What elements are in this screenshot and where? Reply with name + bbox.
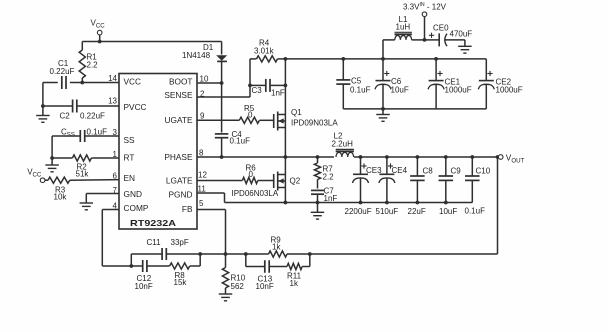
label C8 — [423, 167, 434, 176]
ground pin7 — [80, 203, 94, 210]
svg-text:GND: GND — [124, 189, 142, 199]
wire R4 left vertical — [249, 59, 251, 86]
label pin SENSE — [164, 90, 193, 100]
capacitor C6 — [375, 59, 391, 109]
wire VCC top rail — [82, 41, 221, 43]
wire input bottom rail — [343, 108, 486, 110]
wire SS to RT vertical — [51, 136, 53, 158]
wire FB node — [200, 253, 246, 255]
svg-text:0.1uF: 0.1uF — [230, 137, 251, 146]
capacitor C12 — [131, 260, 147, 272]
junction C5 top — [341, 57, 345, 61]
label C6 — [391, 77, 409, 95]
svg-text:10nF: 10nF — [135, 282, 153, 291]
svg-text:IPD09N03LA: IPD09N03LA — [291, 119, 338, 128]
junction C6 top — [381, 57, 385, 61]
ground C7 — [311, 203, 325, 220]
pin number 11 — [198, 184, 207, 193]
label Q1 — [291, 108, 338, 128]
svg-text:Q1: Q1 — [291, 108, 302, 117]
pin number 3 — [113, 128, 118, 137]
svg-text:0.22uF: 0.22uF — [80, 112, 105, 121]
terminal VCC — [97, 30, 102, 41]
label C1 — [50, 59, 75, 76]
capacitor C7 — [311, 190, 324, 202]
svg-text:1N4148: 1N4148 — [182, 51, 211, 60]
terminal VIN — [422, 12, 427, 40]
svg-text:SS: SS — [124, 135, 136, 145]
wire pin13 PVCC — [43, 105, 119, 107]
label R9 — [271, 236, 282, 252]
label R4 — [254, 39, 275, 56]
svg-text:0.1uF: 0.1uF — [350, 86, 371, 95]
svg-text:22uF: 22uF — [408, 207, 426, 216]
label C7 — [324, 187, 338, 204]
transistor Q2 — [274, 172, 286, 191]
wire C4 to PHASE — [221, 138, 223, 157]
node VCC label — [91, 19, 106, 30]
svg-text:C9: C9 — [451, 167, 462, 176]
svg-text:5: 5 — [199, 199, 204, 208]
junction C3 right — [284, 84, 288, 88]
wire pin7 GND — [86, 194, 119, 203]
junction C2 left — [41, 104, 45, 108]
capacitor C8 — [410, 157, 425, 203]
diode D1 — [216, 55, 227, 61]
resistor R8 — [147, 254, 200, 269]
junction VOUT tap — [496, 155, 500, 159]
wire PHASE — [197, 156, 334, 158]
capacitor CE0 — [425, 33, 465, 46]
svg-text:470uF: 470uF — [450, 30, 473, 39]
op-amp U1 RT9232A body — [119, 74, 197, 230]
wire comp branch join — [130, 254, 132, 266]
junction C9 bottom — [444, 201, 448, 205]
label pin GND — [124, 189, 142, 199]
junction comp mid — [198, 252, 202, 256]
junction CE4 bottom — [385, 201, 389, 205]
label pin SS — [124, 135, 136, 145]
label pin RT — [124, 153, 135, 163]
label pin EN — [124, 173, 136, 183]
label C3 — [252, 86, 285, 98]
svg-text:33pF: 33pF — [171, 238, 189, 247]
svg-text:0: 0 — [248, 110, 253, 119]
label pin PGND — [169, 190, 193, 200]
svg-text:2.2: 2.2 — [87, 61, 99, 70]
capacitor C5 — [336, 59, 350, 109]
svg-text:3.3VIN - 12V: 3.3VIN - 12V — [403, 2, 447, 12]
wire Q1 source — [284, 128, 286, 158]
junction C10 top — [470, 155, 474, 159]
pin number 8 — [199, 149, 204, 158]
resistor R2 — [52, 155, 119, 161]
label CSS — [61, 128, 107, 139]
label CE1 — [445, 78, 472, 95]
junction C8 top — [416, 155, 420, 159]
svg-text:FB: FB — [182, 204, 193, 214]
junction CE4 top — [385, 155, 389, 159]
capacitor C10 — [465, 157, 480, 203]
svg-text:14: 14 — [108, 74, 117, 83]
svg-text:11: 11 — [198, 184, 207, 193]
capacitor CE2 — [478, 59, 494, 109]
capacitor C9 — [439, 157, 454, 203]
wire Q2 source — [284, 188, 286, 203]
svg-text:1uH: 1uH — [396, 23, 411, 32]
svg-text:10k: 10k — [54, 193, 68, 202]
svg-text:7: 7 — [113, 186, 118, 195]
svg-text:12: 12 — [198, 171, 207, 180]
capacitor C3 — [250, 79, 285, 92]
label CE3 plus — [361, 163, 366, 168]
label CE2 plus — [487, 71, 492, 76]
svg-text:C2: C2 — [60, 112, 71, 121]
wire Q1 drain — [284, 59, 286, 115]
junction input gnd — [381, 107, 385, 111]
label CE4 — [392, 166, 408, 175]
resistor R11 — [269, 254, 310, 270]
resistor R1 — [79, 42, 85, 83]
capacitor C13 — [246, 254, 269, 273]
svg-text:15k: 15k — [174, 278, 188, 287]
svg-text:0.22uF: 0.22uF — [50, 67, 75, 76]
svg-text:SENSE: SENSE — [164, 90, 193, 100]
svg-text:C3: C3 — [252, 86, 263, 95]
label R5 — [244, 104, 255, 119]
label CE4 plus — [388, 163, 393, 168]
capacitor CSS — [80, 130, 84, 142]
svg-text:C8: C8 — [423, 167, 434, 176]
svg-text:CE0: CE0 — [433, 24, 449, 33]
label L2 — [332, 132, 354, 149]
junction R9 left — [244, 252, 248, 256]
ground RT net — [45, 158, 59, 172]
svg-text:0.1uF: 0.1uF — [87, 128, 108, 137]
junction C7 gnd — [316, 201, 320, 205]
wire pin11 PGND — [197, 193, 285, 203]
pin number 10 — [200, 75, 209, 84]
label C2 — [60, 112, 106, 121]
svg-text:3.01k: 3.01k — [254, 47, 275, 56]
node VCC2 label — [27, 168, 42, 179]
junction R4 right rail — [284, 57, 288, 61]
label R8 — [174, 271, 188, 287]
ground R10 — [219, 294, 233, 301]
pin number 12 — [198, 171, 207, 180]
pin number 13 — [108, 96, 117, 105]
inductor L1 — [383, 32, 425, 40]
ground CE0 — [458, 40, 472, 53]
svg-text:10: 10 — [200, 75, 209, 84]
svg-text:6: 6 — [113, 171, 118, 180]
capacitor CE3 — [353, 157, 369, 203]
label CE0 plus — [429, 33, 434, 38]
ground pin13 net — [36, 106, 50, 122]
svg-text:1000uF: 1000uF — [445, 86, 472, 95]
label D1 — [182, 43, 214, 60]
label R7 — [323, 165, 335, 182]
svg-text:0.1uF: 0.1uF — [465, 207, 486, 216]
label R11 — [287, 272, 302, 289]
capacitor C2 — [73, 100, 77, 113]
node VIN label — [403, 2, 447, 12]
resistor R7 — [314, 157, 320, 189]
pin number 14 — [108, 74, 117, 83]
wire ground rail — [285, 202, 472, 204]
label pin PVCC — [124, 102, 147, 112]
svg-text:2200uF: 2200uF — [345, 207, 372, 216]
svg-text:8: 8 — [199, 149, 204, 158]
junction R7 top — [316, 155, 320, 159]
svg-text:1nF: 1nF — [271, 89, 285, 98]
ground input bank — [376, 109, 390, 121]
label pin LGATE — [166, 176, 193, 186]
svg-text:PVCC: PVCC — [124, 102, 147, 112]
svg-text:51k: 51k — [76, 170, 90, 179]
wire FB to VOUT — [310, 157, 498, 254]
pin number 5 — [199, 199, 204, 208]
label L1 — [396, 15, 411, 32]
label CE2 — [496, 78, 523, 95]
label R2 — [76, 163, 90, 179]
label CE3 — [366, 166, 382, 175]
svg-text:1000uF: 1000uF — [496, 86, 523, 95]
capacitor CE1 — [428, 59, 444, 109]
label R10 — [231, 274, 246, 292]
transistor Q1 — [274, 112, 286, 131]
label C10 — [476, 167, 491, 176]
wire pin10 BOOT — [197, 82, 222, 84]
svg-text:13: 13 — [108, 96, 117, 105]
label pin FB — [182, 204, 193, 214]
wire input top rail — [285, 58, 486, 60]
svg-text:9: 9 — [200, 112, 205, 121]
svg-text:3: 3 — [113, 128, 118, 137]
terminal VOUT — [498, 155, 503, 160]
svg-text:PHASE: PHASE — [164, 152, 193, 162]
label pin UGATE — [165, 115, 193, 125]
label C9 — [451, 167, 462, 176]
junction RT — [50, 156, 54, 160]
inductor L2 — [336, 149, 354, 157]
resistor R5 — [197, 117, 274, 123]
svg-text:RT: RT — [124, 153, 135, 163]
label RT9232A — [130, 218, 176, 228]
svg-text:2.2uH: 2.2uH — [332, 139, 354, 148]
svg-text:LGATE: LGATE — [166, 176, 193, 186]
wire pin5 FB — [197, 210, 226, 255]
capacitor C11 — [131, 248, 200, 260]
junction Q2 gnd — [284, 201, 288, 205]
junction C8 bottom — [416, 201, 420, 205]
svg-text:1k: 1k — [290, 279, 299, 288]
resistor R9 — [246, 251, 310, 257]
svg-text:BOOT: BOOT — [169, 77, 193, 87]
svg-text:IPD06N03LA: IPD06N03LA — [232, 189, 279, 198]
label pin VCC — [124, 77, 142, 87]
svg-text:C5: C5 — [351, 77, 362, 86]
capacitor C4 — [215, 134, 229, 138]
wire L1 to rail — [382, 40, 384, 59]
junction C9 top — [444, 155, 448, 159]
junction BOOT — [220, 81, 224, 85]
wire C1 left vertical — [42, 83, 44, 107]
label CE1 plus — [437, 71, 442, 76]
pin number 1 — [113, 150, 118, 159]
svg-text:C11: C11 — [147, 238, 162, 247]
svg-text:562: 562 — [231, 282, 245, 291]
label R1 value — [87, 53, 99, 70]
label C12 — [135, 274, 153, 291]
junction R1 pin14 — [80, 81, 84, 85]
pin number 9 — [200, 112, 205, 121]
svg-text:C10: C10 — [476, 167, 491, 176]
junction C3 left — [248, 84, 252, 88]
label CE0 — [433, 24, 472, 39]
junction VCC rail — [98, 40, 102, 44]
junction CE3 top — [359, 155, 363, 159]
wire pin2 SENSE — [197, 85, 250, 97]
label pin COMP — [124, 203, 149, 213]
junction CE1 top — [434, 57, 438, 61]
junction L1 right — [423, 38, 427, 42]
resistor R6 — [197, 177, 274, 183]
wire D1 vertical — [221, 42, 223, 133]
svg-text:1nF: 1nF — [324, 194, 338, 203]
junction Q1 PHASE — [284, 155, 288, 159]
label C11 — [147, 238, 189, 247]
resistor R4 — [250, 56, 285, 62]
svg-text:10uF: 10uF — [439, 207, 457, 216]
svg-text:CE4: CE4 — [392, 166, 408, 175]
label output cap values — [345, 207, 486, 217]
label C4 — [230, 130, 251, 146]
wire pin3 SS — [52, 135, 119, 137]
pin number 4 — [113, 202, 118, 211]
pin number 2 — [200, 90, 205, 99]
label R3 — [54, 186, 68, 202]
resistor R3 — [45, 177, 119, 183]
node VOUT label — [506, 152, 525, 164]
junction FB drop — [224, 252, 228, 256]
svg-text:VCC: VCC — [124, 77, 142, 87]
svg-text:1k: 1k — [272, 243, 281, 252]
wire pin4 COMP — [102, 210, 131, 267]
svg-text:1: 1 — [113, 150, 118, 159]
svg-text:RT9232A: RT9232A — [130, 218, 176, 228]
svg-text:0: 0 — [249, 170, 254, 179]
svg-text:EN: EN — [124, 173, 136, 183]
junction CE3 bottom — [359, 201, 363, 205]
label C5 — [350, 77, 371, 95]
wire Q2 drain — [284, 157, 286, 175]
label pin BOOT — [169, 77, 193, 87]
svg-text:10nF: 10nF — [256, 282, 274, 291]
svg-text:10uF: 10uF — [391, 86, 409, 95]
terminal VCC EN — [40, 178, 45, 183]
wire pin14 VCC — [43, 82, 119, 84]
junction comp left — [129, 264, 133, 268]
pin number 6 — [113, 171, 118, 180]
svg-text:Q2: Q2 — [290, 176, 301, 185]
pin number 7 — [113, 186, 118, 195]
svg-text:UGATE: UGATE — [165, 115, 193, 125]
svg-text:510uF: 510uF — [376, 207, 399, 216]
junction C4 PHASE — [220, 155, 224, 159]
wire output rail — [354, 156, 498, 158]
svg-text:PGND: PGND — [169, 190, 193, 200]
label C6 plus — [384, 71, 389, 76]
svg-text:2.2: 2.2 — [323, 173, 335, 182]
svg-text:COMP: COMP — [124, 203, 149, 213]
label Q2 — [232, 176, 301, 198]
label R6 — [246, 163, 257, 179]
label C13 — [256, 275, 274, 292]
label pin PHASE — [164, 152, 193, 162]
capacitor CE4 — [379, 157, 395, 203]
junction R9 right — [308, 252, 312, 256]
capacitor C1 — [62, 76, 66, 89]
resistor R10 — [222, 254, 228, 294]
